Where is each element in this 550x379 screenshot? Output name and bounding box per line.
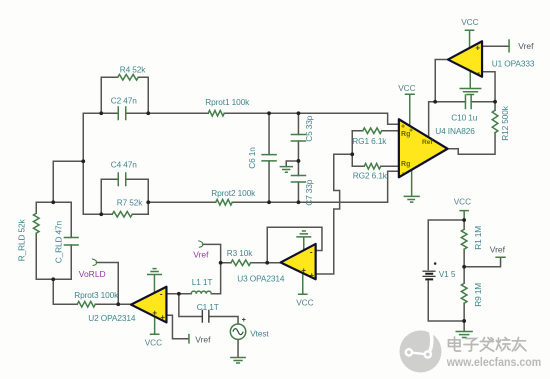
svg-text:RG2 6.1k: RG2 6.1k xyxy=(353,170,388,180)
svg-text:U3 OPA2314: U3 OPA2314 xyxy=(237,273,285,283)
svg-text:C_RLD 47n: C_RLD 47n xyxy=(53,220,63,263)
svg-text:R_RLD 52k: R_RLD 52k xyxy=(16,218,26,261)
svg-text:VoRLD: VoRLD xyxy=(79,269,106,279)
svg-text:www.elecfans.com: www.elecfans.com xyxy=(446,357,541,369)
svg-text:R12 500k: R12 500k xyxy=(500,105,510,141)
svg-text:C6 1n: C6 1n xyxy=(247,147,257,169)
svg-text:-: - xyxy=(310,247,313,256)
svg-text:R3 10k: R3 10k xyxy=(227,248,254,258)
svg-text:Vref: Vref xyxy=(193,249,209,259)
svg-text:+: + xyxy=(401,123,405,130)
svg-text:VCC: VCC xyxy=(145,337,162,347)
svg-text:RG1 6.1k: RG1 6.1k xyxy=(352,136,387,146)
svg-text:Vref: Vref xyxy=(518,41,534,51)
svg-text:C7 33p: C7 33p xyxy=(304,179,314,206)
svg-text:Ref: Ref xyxy=(422,139,433,146)
svg-text:R1 1M: R1 1M xyxy=(473,226,483,250)
svg-text:Vtest: Vtest xyxy=(250,328,269,338)
svg-text:U4 INA826: U4 INA826 xyxy=(435,126,475,136)
svg-text:U1 OPA333: U1 OPA333 xyxy=(492,58,535,68)
svg-text:C1 1T: C1 1T xyxy=(197,302,219,312)
svg-text:+: + xyxy=(152,308,157,317)
svg-text:C10 1u: C10 1u xyxy=(451,112,478,122)
svg-text:+: + xyxy=(475,43,480,52)
svg-text:+: + xyxy=(409,127,413,134)
svg-text:+: + xyxy=(242,317,246,324)
svg-text:R4 52k: R4 52k xyxy=(120,64,147,74)
svg-text:Rprot3 100k: Rprot3 100k xyxy=(74,290,119,300)
svg-text:+: + xyxy=(160,313,165,322)
svg-text:Rprot2 100k: Rprot2 100k xyxy=(211,188,256,198)
svg-text:Vref: Vref xyxy=(490,244,506,254)
svg-text:Vref: Vref xyxy=(195,334,211,344)
svg-text:L1 1T: L1 1T xyxy=(192,277,213,287)
svg-text:U2 OPA2314: U2 OPA2314 xyxy=(88,313,136,323)
svg-text:C2 47n: C2 47n xyxy=(111,95,138,105)
svg-text:C4 47n: C4 47n xyxy=(111,159,138,169)
svg-text:C5 33p: C5 33p xyxy=(304,115,314,142)
svg-text:Rg: Rg xyxy=(401,161,410,168)
svg-text:-: - xyxy=(160,289,163,298)
svg-text:R7 52k: R7 52k xyxy=(117,197,144,207)
svg-text:V1 5: V1 5 xyxy=(439,269,456,279)
svg-text:+: + xyxy=(301,266,306,275)
svg-text:Rprot1 100k: Rprot1 100k xyxy=(205,97,250,107)
svg-text:VCC: VCC xyxy=(461,17,478,27)
svg-text:-: - xyxy=(477,68,480,77)
svg-text:R9 1M: R9 1M xyxy=(473,283,483,307)
svg-text:VCC: VCC xyxy=(398,83,415,93)
svg-text:VCC: VCC xyxy=(454,196,471,206)
svg-text:VCC: VCC xyxy=(296,297,313,307)
svg-text:+: + xyxy=(309,271,314,280)
